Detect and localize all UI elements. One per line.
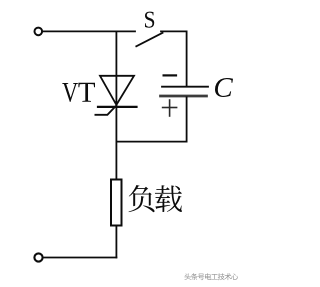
capacitor C top plate — [162, 86, 208, 88]
wire: switch to top-right corner — [161, 30, 187, 32]
terminal top-left — [35, 28, 43, 36]
label 负载 (load) char 载 — [155, 185, 182, 212]
wire: load to bottom corner — [115, 226, 117, 258]
wire: capacitor bottom to junction — [116, 97, 186, 141]
load resistor box — [111, 180, 122, 226]
label S (switch) — [145, 12, 154, 28]
wire: cathode down to load — [115, 107, 117, 180]
wire top: terminal to switch contact — [43, 30, 135, 32]
watermark (gray) — [184, 273, 238, 280]
label C (capacitor, italic) — [215, 78, 233, 97]
label VT (thyristor) letter T — [78, 83, 95, 102]
label VT (thyristor) letter V — [62, 83, 78, 102]
wire: right vertical down to capacitor — [186, 31, 188, 86]
capacitor plus sign — [163, 100, 177, 116]
thyristor VT triangle (anode) — [100, 76, 134, 105]
capacitor minus sign — [164, 74, 176, 76]
wire: main vertical anode branch — [115, 31, 117, 106]
switch S blade (open) — [136, 33, 162, 47]
label 负载 (load) char 负 — [129, 185, 155, 212]
wire bottom: corner to terminal — [43, 257, 116, 259]
thyristor VT cathode bar — [98, 106, 137, 108]
terminal bottom-left — [34, 253, 42, 261]
capacitor C bottom plate (thick) — [161, 95, 207, 98]
thyristor VT gate lead — [95, 106, 116, 115]
